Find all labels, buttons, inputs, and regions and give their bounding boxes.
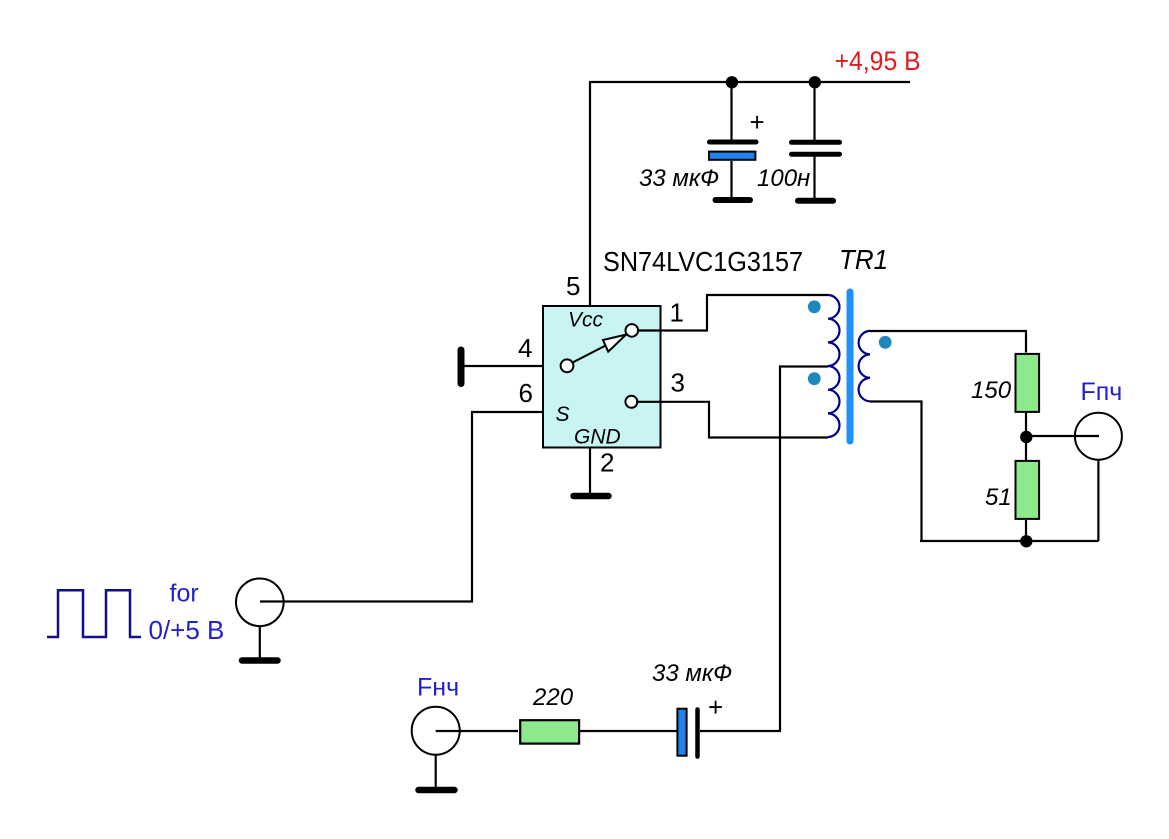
capacitor C2 bottom plate	[792, 152, 840, 157]
wire: R1 to R2	[1025, 413, 1027, 460]
wire: C1 to ground	[730, 161, 732, 198]
svg-text:150: 150	[971, 377, 1012, 404]
wire: rail down to chip pin 5	[589, 81, 591, 307]
generator Fнч circle	[412, 707, 460, 755]
resistor R2 51	[1016, 461, 1040, 519]
svg-text:33 мкФ: 33 мкФ	[652, 660, 732, 687]
node: junction dot at bottom rail	[1020, 535, 1032, 547]
svg-text:51: 51	[985, 484, 1012, 511]
ground: under C1	[716, 197, 751, 203]
generator Fпч circle	[1075, 413, 1122, 460]
transformer TR1 secondary winding	[859, 331, 870, 401]
wire: +4,95V power rail	[590, 81, 910, 83]
wire: R3 to C3	[580, 730, 677, 732]
generator for circle	[236, 579, 284, 627]
wire: C2 to ground	[813, 156, 815, 198]
svg-text:Vcc: Vcc	[568, 309, 604, 332]
svg-text:6: 6	[519, 378, 533, 408]
svg-text:GND: GND	[574, 426, 621, 449]
terminal bar at pin 4	[458, 350, 465, 384]
switch contact circle A (pin 1)	[626, 324, 639, 337]
svg-text:1: 1	[670, 298, 684, 328]
wire: R2 bottom to bottom rail	[1025, 520, 1027, 542]
svg-text:S: S	[556, 403, 570, 426]
svg-text:4: 4	[518, 333, 532, 363]
IC U1 SN74LVC1G3157 body	[543, 306, 661, 448]
svg-text:100н: 100н	[757, 165, 810, 192]
ground: under chip pin 2	[574, 493, 609, 500]
svg-text:0/+5 В: 0/+5 В	[149, 615, 225, 645]
node: junction dot at C1	[726, 76, 738, 88]
switch lever wire	[573, 335, 626, 362]
wire: secondary top to R1	[870, 331, 1026, 353]
wire: secondary bottom to bottom rail	[870, 402, 922, 543]
wire: junction to Fпч generator	[1026, 435, 1099, 437]
capacitor C1 bottom plate (blue electrolytic)	[709, 152, 755, 160]
node: junction dot at C2	[809, 76, 821, 88]
wire: pin 3 to transformer primary bottom	[636, 402, 828, 438]
phase dot: primary bottom	[808, 372, 821, 385]
transformer TR1 core	[847, 292, 854, 441]
svg-text:+: +	[708, 692, 723, 722]
svg-text:+4,95 В: +4,95 В	[835, 46, 921, 76]
wire: pin 6 to generator	[260, 412, 544, 602]
capacitor C3 left plate (blue)	[677, 709, 686, 756]
resistor R3 220	[520, 720, 579, 743]
svg-text:+: +	[750, 107, 765, 137]
wire: Fнч to R3	[436, 730, 518, 732]
svg-text:2: 2	[600, 448, 614, 478]
wire: for generator to ground	[259, 626, 261, 659]
transformer TR1 primary winding	[828, 295, 839, 437]
capacitor C1 top plate	[710, 140, 757, 145]
node: junction dot between R1 and R2	[1020, 431, 1032, 443]
svg-text:Fнч: Fнч	[417, 674, 459, 702]
switch contact circle C (pin 3)	[625, 396, 637, 408]
svg-text:TR1: TR1	[839, 244, 888, 275]
resistor R1 150	[1016, 354, 1040, 412]
ground: under C2	[798, 198, 833, 204]
ground: under for generator	[242, 657, 278, 664]
wire: pin 4 stub	[461, 365, 544, 367]
wire: Fнч generator to ground	[435, 755, 437, 789]
wire: pin 2 to ground	[589, 447, 591, 493]
svg-text:33 мкФ: 33 мкФ	[639, 165, 719, 192]
ground: under Fнч generator	[419, 787, 455, 794]
svg-text:220: 220	[532, 684, 574, 711]
wire: C3 to center tap riser	[700, 730, 781, 732]
phase dot: secondary	[879, 336, 892, 349]
svg-text:Fпч: Fпч	[1081, 378, 1123, 406]
switch arrowhead	[603, 335, 626, 352]
wire: primary center tap down to C3	[780, 367, 828, 732]
capacitor C2 top plate	[792, 140, 840, 145]
wire: Fпч bottom to rail	[1097, 460, 1099, 542]
wire: pin 1 to transformer primary top	[637, 295, 828, 331]
phase dot: primary top	[808, 300, 821, 313]
svg-text:5: 5	[566, 271, 580, 301]
square wave symbol	[47, 590, 141, 637]
capacitor C3 right plate	[695, 710, 700, 757]
wire: rail to capacitor C2	[813, 81, 815, 141]
svg-text:for: for	[170, 580, 199, 608]
wire: rail to capacitor C1	[730, 81, 732, 141]
switch contact circle B (pin 4)	[561, 359, 574, 372]
svg-text:3: 3	[671, 367, 685, 397]
wire: bottom rail	[920, 540, 1099, 542]
svg-text:SN74LVC1G3157: SN74LVC1G3157	[603, 246, 803, 277]
